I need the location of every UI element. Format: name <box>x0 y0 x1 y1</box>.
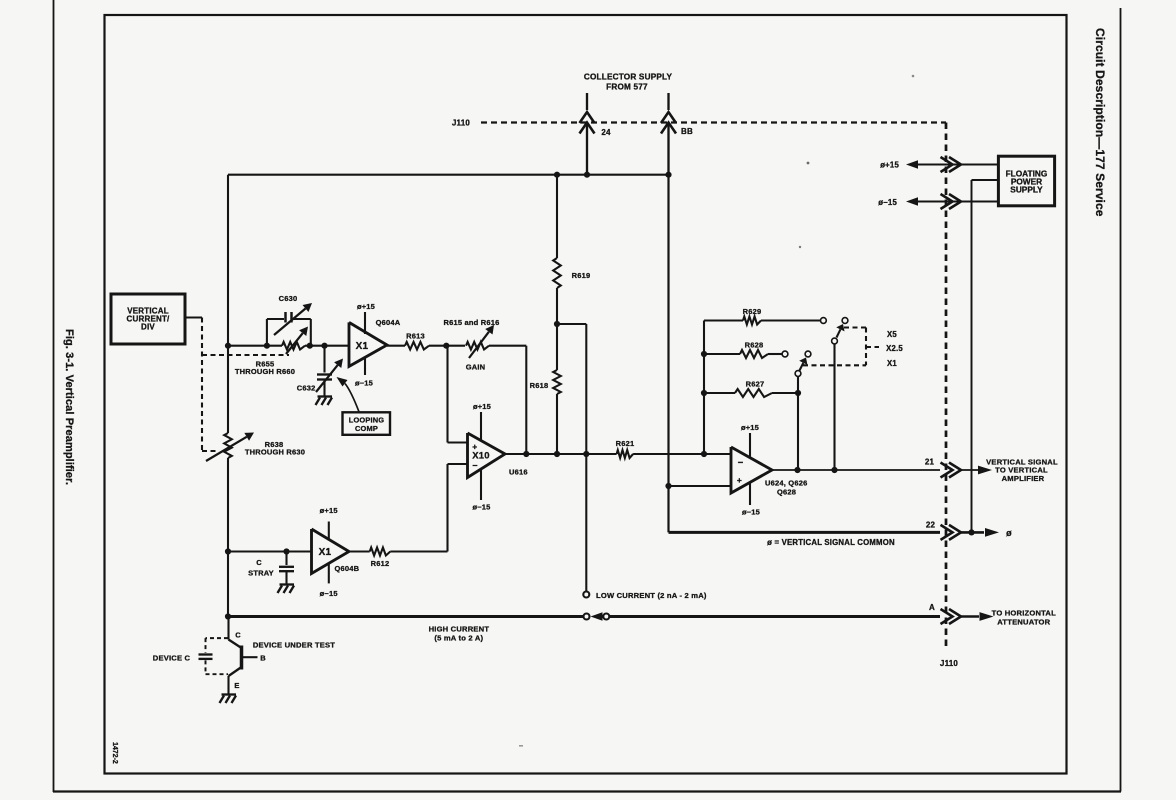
rheostat R638 THROUGH R630 <box>224 433 232 458</box>
capacitor C STRAY <box>285 552 287 566</box>
junction bus-BB <box>665 172 671 178</box>
contact R629 <box>821 318 827 324</box>
svg-text:ø+15: ø+15 <box>357 302 375 311</box>
svg-text:Q604B: Q604B <box>335 564 360 573</box>
svg-text:ø+15: ø+15 <box>741 423 759 432</box>
dashed interconnect line J110 vertical <box>945 123 948 651</box>
svg-text:B: B <box>260 653 266 662</box>
curved pointer looping comp to C632 <box>345 384 359 412</box>
wire input row 2 <box>305 345 349 347</box>
connector chevron phi+15 <box>941 157 953 172</box>
svg-text:FROM 577: FROM 577 <box>606 83 648 92</box>
wire R621 to U624 <box>633 453 731 455</box>
page right rule <box>1120 8 1122 792</box>
wire U616 output <box>505 453 617 455</box>
svg-text:ø−15: ø−15 <box>742 508 760 517</box>
schematic border frame <box>105 15 1067 774</box>
svg-text:COMP: COMP <box>355 424 378 433</box>
junction C632 tap <box>321 343 327 349</box>
wire Q604B input <box>228 550 312 552</box>
junction R619 bottom <box>554 321 560 327</box>
svg-text:24: 24 <box>601 128 611 137</box>
svg-text:ø−15: ø−15 <box>878 198 897 207</box>
resistor R621 <box>617 450 634 458</box>
svg-text:A: A <box>929 603 935 612</box>
wire signal common 22 <box>669 531 941 534</box>
svg-text:X1: X1 <box>356 341 369 352</box>
wire to U616 - input <box>448 463 468 465</box>
junction output-X5 leg <box>831 467 837 473</box>
junction + input tap <box>665 483 671 489</box>
wire BB trunk <box>667 175 669 533</box>
resistor R629 <box>704 319 743 321</box>
dashed interconnect line J110 horizontal <box>481 121 946 123</box>
svg-text:J110: J110 <box>940 659 959 668</box>
capacitor C630 variable <box>266 319 268 346</box>
switch X5 arm <box>837 329 841 337</box>
svg-text:ø+15: ø+15 <box>473 402 491 411</box>
wire input row <box>228 345 282 347</box>
wire floating supply to common <box>972 179 999 181</box>
connector chevron BB <box>667 93 669 110</box>
wire X5 leg <box>833 344 835 470</box>
wire to U616 + input <box>446 346 448 443</box>
junction output-X1 leg <box>794 467 800 473</box>
terminal high current left <box>584 614 590 620</box>
wire high current left <box>228 615 584 618</box>
junction rail R628 <box>701 351 707 357</box>
svg-text:R613: R613 <box>406 332 425 341</box>
switch X2.5 arm <box>800 363 804 371</box>
svg-text:J110: J110 <box>452 119 471 128</box>
svg-text:THROUGH R660: THROUGH R660 <box>235 367 295 376</box>
supply -15 Q604A <box>364 357 366 375</box>
dashed linkage to R638 <box>202 450 216 452</box>
svg-text:C632: C632 <box>297 384 316 393</box>
block FLOATING POWER SUPPLY <box>998 156 1054 206</box>
junction C630 left <box>264 343 270 349</box>
svg-text:BB: BB <box>681 127 693 136</box>
wire left trunk lower <box>227 458 229 617</box>
svg-text:1472-2: 1472-2 <box>111 742 118 764</box>
junction trunk-input <box>225 343 231 349</box>
arrow to horizontal attenuator <box>980 612 994 621</box>
block LOOPING COMP <box>343 412 391 435</box>
junction low-current branch <box>583 451 589 457</box>
supply +15 U624 <box>749 433 751 458</box>
wire to U624 + input <box>669 485 732 487</box>
base lead <box>242 656 258 658</box>
svg-text:SUPPLY: SUPPLY <box>1010 184 1043 194</box>
svg-text:TO HORIZONTAL: TO HORIZONTAL <box>992 609 1056 618</box>
wire collector supply bus <box>228 174 669 176</box>
junction X1 leg R627 <box>795 390 801 396</box>
svg-text:U616: U616 <box>509 468 528 477</box>
svg-text:C: C <box>256 558 262 567</box>
svg-text:R619: R619 <box>572 271 591 280</box>
svg-text:R621: R621 <box>616 439 635 448</box>
svg-text:R628: R628 <box>745 341 764 350</box>
svg-text:Fig. 3-1. Vertical Preamplifi: Fig. 3-1. Vertical Preamplifier. <box>63 329 75 485</box>
svg-text:R618: R618 <box>530 381 549 390</box>
supply -15 U616 <box>480 469 482 501</box>
connector chevron A <box>941 609 953 624</box>
junction C630 right <box>307 343 313 349</box>
arrow phi+15 <box>906 160 918 168</box>
svg-text:21: 21 <box>925 458 935 467</box>
svg-text:DEVICE C: DEVICE C <box>153 654 191 663</box>
resistor R627 <box>704 392 735 394</box>
wire X1 leg <box>797 377 799 471</box>
svg-text:U624, Q626: U624, Q626 <box>765 479 807 488</box>
wire high current right <box>609 615 940 618</box>
supply +15 Q604B <box>328 522 330 541</box>
svg-text:ø−15: ø−15 <box>355 379 373 388</box>
resistor R628 <box>704 353 740 355</box>
supply +15 Q604A <box>364 312 366 334</box>
ground below C632 <box>318 395 333 397</box>
ground below C STRAY <box>280 583 295 585</box>
arrow to common phi <box>985 528 999 537</box>
svg-text:22: 22 <box>926 521 936 530</box>
svg-text:(5 mA to 2 A): (5 mA to 2 A) <box>434 634 483 643</box>
svg-text:COLLECTOR SUPPLY: COLLECTOR SUPPLY <box>584 73 673 82</box>
capacitor DEVICE C dashed <box>206 637 229 639</box>
svg-text:Q604A: Q604A <box>376 318 401 327</box>
block VERTICAL CURRENT/DIV <box>111 294 185 344</box>
svg-text:E: E <box>234 681 239 690</box>
junction common-floating supply <box>968 529 974 535</box>
svg-text:LOW CURRENT (2 nA - 2 mA): LOW CURRENT (2 nA - 2 mA) <box>596 591 707 600</box>
svg-text:STRAY: STRAY <box>248 568 274 577</box>
svg-text:R612: R612 <box>371 559 390 568</box>
junction feedback node <box>701 451 707 457</box>
svg-text:ø−15: ø−15 <box>320 589 338 598</box>
wire U624 output <box>772 469 940 471</box>
connector chevron 24 <box>586 93 588 110</box>
dashed switch linkage <box>844 326 866 328</box>
svg-text:ø: ø <box>1006 528 1012 538</box>
junction R613 output <box>443 343 449 349</box>
dashed linkage to R655 <box>202 354 289 356</box>
wire after 22 chevron <box>959 531 985 534</box>
svg-text:X5: X5 <box>887 330 897 339</box>
wire stub from VERTICAL CURRENT/DIV <box>185 316 202 318</box>
junction rail R627 <box>701 390 707 396</box>
connector chevron 21 <box>941 463 953 478</box>
svg-text:ø = VERTICAL SIGNAL COMMON: ø = VERTICAL SIGNAL COMMON <box>767 538 895 547</box>
scan specks <box>807 162 810 165</box>
junction bus-24 <box>584 172 590 178</box>
capacitor C632 variable <box>323 346 325 373</box>
svg-text:X1: X1 <box>319 547 332 558</box>
resistor R612 <box>349 550 370 552</box>
svg-text:+: + <box>737 475 742 485</box>
junction trunk high current <box>225 613 231 619</box>
svg-text:ø+15: ø+15 <box>320 506 338 515</box>
contact R628 <box>782 351 788 357</box>
rheostat R655 THROUGH R660 <box>282 342 305 350</box>
op-amp U624 Q626 Q628 <box>731 447 772 493</box>
junction trunk Q604B <box>225 548 231 554</box>
terminal high current right <box>603 614 609 620</box>
switch X2.5 contact <box>805 351 811 357</box>
wire branch to low current <box>557 323 586 325</box>
supply +15 U616 <box>480 412 482 441</box>
op-amp Q604A X1 <box>349 322 387 366</box>
svg-text:R615 and R616: R615 and R616 <box>444 318 500 327</box>
rheostat GAIN R615 and R616 <box>446 345 465 347</box>
svg-text:Q628: Q628 <box>777 488 796 497</box>
svg-text:HIGH CURRENT: HIGH CURRENT <box>429 625 490 634</box>
svg-text:−: − <box>738 458 744 469</box>
svg-text:R627: R627 <box>746 380 765 389</box>
switch arrow high current <box>591 612 603 620</box>
resistor R613 <box>387 345 405 347</box>
junction bus-R619 <box>554 172 560 178</box>
switch X5 contact <box>842 318 848 324</box>
wire left trunk upper <box>227 175 229 433</box>
resistor R618 <box>556 324 558 370</box>
junction R618 bottom <box>554 451 560 457</box>
svg-text:C630: C630 <box>279 294 298 303</box>
svg-text:C: C <box>235 631 241 640</box>
junction C stray <box>283 548 289 554</box>
transistor DEVICE UNDER TEST <box>227 617 229 640</box>
svg-text:THROUGH R630: THROUGH R630 <box>245 448 305 457</box>
connector chevron 22 <box>941 525 953 540</box>
wire GAIN to feedback corner <box>489 345 526 347</box>
dashed mechanical linkage vertical <box>201 318 203 452</box>
svg-text:X2.5: X2.5 <box>886 344 903 353</box>
svg-text:ø−15: ø−15 <box>472 503 490 512</box>
terminal LOW CURRENT <box>583 592 589 598</box>
arrow phi-15 <box>906 197 918 205</box>
svg-text:Circuit Description—177 Servic: Circuit Description—177 Service <box>1093 28 1107 217</box>
wire feedback left rail <box>703 321 705 455</box>
page left rule <box>53 0 55 792</box>
svg-text:AMPLIFIER: AMPLIFIER <box>1002 474 1045 483</box>
junction feedback <box>523 451 529 457</box>
page bottom rule <box>53 790 1121 792</box>
ground below emitter <box>222 693 237 695</box>
connector chevron phi-15 <box>941 194 953 209</box>
svg-text:R629: R629 <box>743 307 762 316</box>
svg-text:−: − <box>472 460 477 470</box>
svg-text:X1: X1 <box>887 359 897 368</box>
op-amp U616 X10 <box>468 433 506 478</box>
svg-text:DEVICE UNDER TEST: DEVICE UNDER TEST <box>253 641 335 650</box>
svg-text:ø+15: ø+15 <box>880 160 899 169</box>
op-amp Q604B X1 <box>312 529 350 574</box>
resistor R619 <box>556 175 558 258</box>
arrow to vertical amplifier <box>978 466 992 475</box>
svg-text:ATTENUATOR: ATTENUATOR <box>997 617 1050 626</box>
svg-text:GAIN: GAIN <box>466 363 486 372</box>
svg-text:DIV: DIV <box>141 323 155 332</box>
supply -15 Q604B <box>328 563 330 584</box>
supply -15 U624 <box>749 482 751 505</box>
